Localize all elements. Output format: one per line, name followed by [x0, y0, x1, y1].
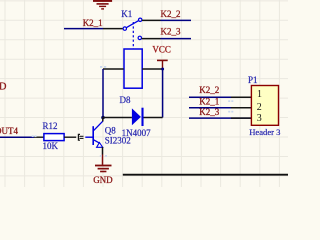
- diode D8: [132, 108, 141, 125]
- junction at VCC node: [161, 68, 164, 71]
- transistor Q8: [85, 121, 103, 147]
- svg-text:D: D: [0, 81, 7, 92]
- pin (resistor right lead): [64, 136, 76, 138]
- svg-text:GND: GND: [93, 175, 113, 185]
- junction at drain node: [101, 116, 105, 120]
- pin (throw top): [142, 19, 161, 21]
- connector P1 body: [251, 86, 278, 126]
- wire K2_3 to header: [189, 117, 251, 119]
- wire K2_3 (top): [161, 38, 192, 40]
- relay coil K1: [124, 49, 142, 88]
- pin P1.2: [231, 107, 251, 109]
- wire K2_1 to header: [189, 107, 251, 109]
- wire OUT4 to resistor: [0, 136, 34, 138]
- ground GND (bottom): [95, 165, 112, 173]
- pin (diode cathode): [144, 117, 163, 119]
- svg-text:VCC: VCC: [152, 44, 171, 54]
- svg-text:K2_2: K2_2: [161, 9, 181, 19]
- power port VCC: [152, 44, 171, 69]
- svg-text:2: 2: [257, 102, 262, 113]
- svg-text:P1: P1: [248, 75, 258, 85]
- pin (throw bottom): [142, 38, 161, 40]
- resistor R12: [44, 134, 64, 141]
- svg-text:OUT4: OUT4: [0, 126, 18, 136]
- wire (left vertical, coil to drain node): [102, 69, 104, 118]
- wire K2_2 (top): [161, 19, 192, 21]
- pin (diode anode): [103, 117, 132, 119]
- dashed actuator link: [132, 22, 134, 49]
- switch throw contact (bottom): [138, 36, 141, 39]
- svg-text:D8: D8: [120, 95, 131, 105]
- pin P1.1: [231, 96, 251, 98]
- svg-text:K2_3: K2_3: [161, 27, 181, 37]
- svg-text:3: 3: [257, 113, 262, 124]
- wire (bottom, clipped): [123, 174, 288, 176]
- svg-text:K2_3: K2_3: [199, 107, 219, 117]
- sheet background: [0, 0, 288, 187]
- svg-text:10K: 10K: [43, 141, 59, 151]
- svg-text:Q8: Q8: [105, 126, 116, 136]
- pin P1.3: [231, 117, 251, 119]
- off-grid marker dots (coil corner): [32, 66, 234, 157]
- pin (coil right): [142, 68, 162, 70]
- pin (coil left): [103, 68, 124, 70]
- svg-text:K1: K1: [121, 9, 132, 19]
- switch K1 common contact: [123, 27, 126, 30]
- svg-text:K2_2: K2_2: [199, 85, 219, 95]
- svg-text:R12: R12: [43, 121, 58, 131]
- pin (collector): [102, 118, 104, 122]
- wire K2_1: [64, 28, 103, 30]
- switch throw contact (top): [139, 18, 142, 21]
- svg-text:K2_1: K2_1: [83, 18, 103, 28]
- svg-text:1: 1: [257, 89, 262, 100]
- ground (top, clipped): [93, 0, 112, 10]
- pin (relay common): [103, 28, 123, 30]
- wire (VCC down to diode cathode): [162, 69, 164, 118]
- wire K2_2 to header: [189, 96, 251, 98]
- pin end marker (Q8 base pin, bracket + double dash): [78, 134, 83, 140]
- svg-text:Header 3: Header 3: [249, 127, 280, 137]
- svg-text:K2_1: K2_1: [199, 97, 219, 107]
- pin (emitter to GND): [102, 147, 104, 155]
- svg-text:SI2302: SI2302: [105, 136, 131, 146]
- switch blade: [126, 21, 138, 28]
